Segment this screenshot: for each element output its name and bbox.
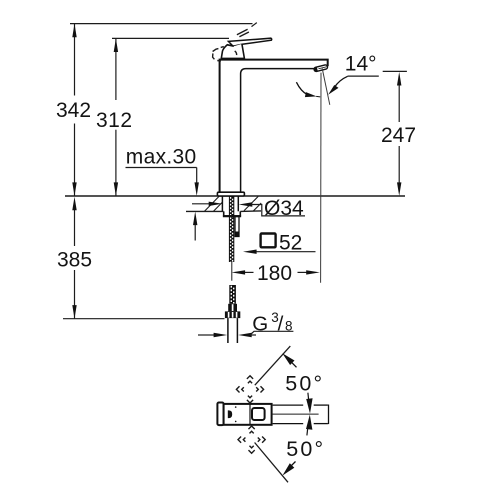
faucet body outline: [220, 60, 328, 192]
svg-text:180: 180: [257, 262, 292, 285]
extension line bottom 385: [63, 318, 225, 320]
svg-text:385: 385: [57, 248, 92, 271]
dimension G3/8: [198, 310, 293, 337]
rotation line upper: [255, 346, 290, 385]
plan view cartridge square: [252, 408, 265, 420]
spout nozzle aerator: [314, 65, 328, 72]
braided hose: [229, 285, 236, 304]
plan view lever dots: [235, 406, 237, 408]
deck bottom line: [186, 210, 224, 212]
angle line 14 deg: [322, 68, 330, 104]
plan view spout center line: [272, 413, 319, 415]
base plate: [217, 192, 244, 196]
svg-text:312: 312: [96, 109, 133, 132]
svg-text:/: /: [278, 312, 284, 335]
pop-up rod: [235, 217, 239, 237]
faucet body inner edge and spout underside: [241, 69, 315, 192]
svg-text:52: 52: [279, 231, 302, 254]
rotation line lower: [255, 443, 288, 483]
lever phantom dashes: [213, 29, 249, 61]
lever blade: [228, 38, 271, 46]
label 14 deg: [345, 53, 379, 77]
tailpipe: [228, 318, 238, 343]
mounting nut: [224, 211, 241, 216]
label square 52: [243, 231, 316, 254]
dimension Ø34: [192, 197, 305, 220]
svg-text:247: 247: [381, 124, 416, 147]
svg-text:342: 342: [56, 99, 91, 122]
svg-text:G: G: [252, 312, 268, 335]
shank through deck: [222, 196, 238, 211]
deck hatching: [205, 196, 262, 211]
plan view spout: [273, 405, 329, 425]
angle arc left: [296, 82, 320, 97]
plan view phantom lever down position: [238, 426, 265, 453]
stub arrow upper: [306, 393, 312, 414]
hose thin line: [231, 262, 233, 281]
angle arc right: [328, 76, 348, 94]
svg-text:Ø34: Ø34: [264, 197, 304, 220]
deck top line: [65, 195, 405, 197]
dimension 247: [381, 71, 416, 196]
threaded rod: [229, 196, 234, 262]
extension line 312: [112, 37, 229, 39]
leader arrow upper 50: [282, 353, 296, 367]
hose fitting: [225, 304, 240, 318]
lever neck: [221, 44, 244, 59]
svg-text:8: 8: [285, 319, 293, 334]
plan view lever D mark: [228, 410, 232, 418]
dimension 342: [56, 24, 91, 196]
extension line top 342: [70, 23, 257, 27]
stub arrow lower: [306, 415, 312, 436]
svg-text:50°: 50°: [285, 371, 324, 395]
plan view phantom lever up position: [236, 376, 263, 403]
leader arrow lower 50: [283, 462, 296, 476]
dimension 312: [96, 38, 133, 196]
plan view lever and body: [224, 404, 272, 425]
svg-text:max.30: max.30: [126, 146, 197, 169]
plan view lever cap: [217, 403, 223, 426]
svg-text:14°: 14°: [345, 53, 377, 76]
plan view lever-body joint: [249, 405, 251, 425]
dimension 180: [232, 262, 320, 285]
stream vertical line: [320, 73, 322, 283]
dimension 385: [57, 197, 92, 319]
label max.30: [126, 146, 199, 241]
svg-text:50°: 50°: [286, 437, 325, 461]
